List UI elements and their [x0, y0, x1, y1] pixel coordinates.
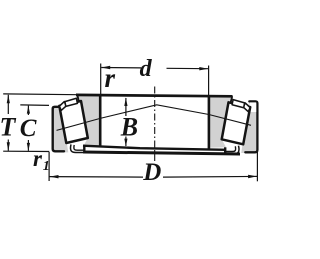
C dimension: extension line: [20, 104, 49, 107]
D dimension line segments: [50, 176, 144, 179]
apex / contact lines: [57, 105, 252, 131]
bearing top face (thick): [76, 95, 233, 96]
D arrows: [50, 175, 59, 178]
d dimension: extension lines: [100, 64, 102, 95]
svg-text:1: 1: [43, 159, 50, 174]
svg-text:C: C: [20, 115, 37, 142]
svg-text:D: D: [142, 159, 161, 186]
D dimension: extension lines: [48, 152, 50, 181]
svg-text:r: r: [33, 146, 43, 171]
T/C bottom extension line: [3, 150, 49, 152]
right half assembly (mirrored): [210, 96, 251, 155]
cup (outer ring) right : taller: [241, 100, 258, 153]
B dimension: [125, 98, 127, 116]
bore line right: [208, 96, 211, 149]
vertical centerline (dash-dot): [154, 87, 156, 162]
right cup upper interior appears white in scan: [248, 102, 256, 112]
thin extension from top face to far left (T datum): [3, 93, 77, 96]
bore line left: [99, 95, 102, 146]
svg-text:B: B: [120, 112, 138, 141]
svg-text:d: d: [140, 56, 153, 82]
line A : cone front face line: [83, 146, 226, 150]
T dimension: [7, 95, 9, 114]
svg-text:r: r: [105, 63, 116, 93]
svg-text:T: T: [0, 113, 17, 142]
d arrows: [101, 66, 110, 69]
left half assembly: [59, 95, 100, 154]
cup (outer ring) left: [52, 106, 69, 153]
d dimension line segments: [101, 67, 141, 69]
line B : bottom face line: [84, 152, 240, 154]
